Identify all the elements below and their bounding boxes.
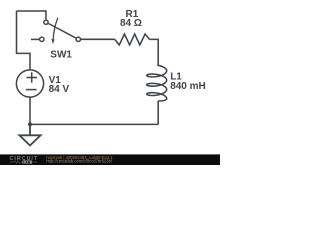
wire inductor to bottom-right corner [157,101,159,125]
voltage source V1 [16,70,43,97]
switch SW1 [31,18,81,44]
wire left side down to V1 [17,11,31,70]
bottom wire [30,123,158,125]
wire top-left loop [17,11,47,19]
resistor R1 [115,34,150,45]
inductor L1 [147,65,167,101]
ground [19,124,40,145]
svg-text:LAB: LAB [23,160,31,164]
svg-text:840 mH: 840 mH [170,81,206,92]
svg-text:84 V: 84 V [49,84,70,95]
wire switch to R1 [81,38,115,40]
wire V1 to ground junction [29,97,31,124]
wire R1 to top-right corner [150,39,159,65]
svg-text:84 Ω: 84 Ω [120,18,142,29]
svg-text:http://circuitlab.com/c/9ccd7b: http://circuitlab.com/c/9ccd7br523b/ [46,159,113,164]
svg-text:SW1: SW1 [50,49,72,60]
CircuitLab logo [10,156,39,164]
node junction dot [28,122,32,126]
watermark bar [0,154,220,165]
